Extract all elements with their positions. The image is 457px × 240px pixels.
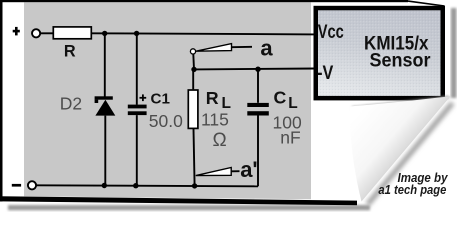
- wire: [36, 185, 258, 186]
- node junction: [102, 31, 107, 36]
- node junction: [102, 183, 107, 188]
- node junction: [133, 183, 138, 188]
- wire: [136, 33, 138, 104]
- svg-text:a1 tech page: a1 tech page: [378, 182, 446, 197]
- terminal -: [12, 181, 36, 189]
- capacitor C1: [128, 94, 147, 115]
- resistor RL: [188, 90, 198, 128]
- svg-text:R: R: [64, 43, 76, 61]
- sensor U1 KMI15/x: [314, 6, 446, 101]
- svg-text:a': a': [240, 157, 257, 182]
- wire: [136, 115, 138, 186]
- wire: [41, 32, 54, 34]
- node junction: [255, 67, 260, 72]
- capacitor CL: [247, 103, 268, 116]
- node junction: [134, 31, 139, 36]
- wire: [192, 54, 195, 69]
- wire: [104, 33, 106, 96]
- resistor R: [53, 27, 91, 39]
- node junction: [192, 183, 197, 188]
- wire: [257, 116, 259, 187]
- svg-text:R: R: [206, 88, 219, 108]
- node junction: [191, 67, 196, 72]
- svg-text:nF: nF: [280, 128, 300, 148]
- svg-text:C1: C1: [151, 91, 171, 108]
- svg-text:115: 115: [201, 109, 229, 129]
- svg-text:L: L: [288, 95, 297, 112]
- node a': [196, 157, 258, 182]
- zener diode D2: [95, 96, 116, 115]
- wire: [104, 116, 106, 186]
- wire: [194, 129, 195, 186]
- svg-text:a: a: [260, 36, 273, 61]
- svg-text:50.0: 50.0: [149, 111, 183, 131]
- wire: [194, 68, 316, 71]
- svg-text:Vcc: Vcc: [318, 22, 344, 43]
- terminal +: [13, 27, 40, 37]
- wire: [257, 69, 259, 103]
- svg-text:Ω: Ω: [213, 130, 227, 151]
- svg-text:C: C: [274, 88, 287, 108]
- svg-text:D2: D2: [60, 94, 82, 114]
- wire: [91, 33, 316, 34]
- svg-text:-V: -V: [317, 63, 333, 84]
- wire: [192, 69, 194, 89]
- svg-text:Sensor: Sensor: [370, 50, 431, 72]
- node a: [190, 36, 273, 61]
